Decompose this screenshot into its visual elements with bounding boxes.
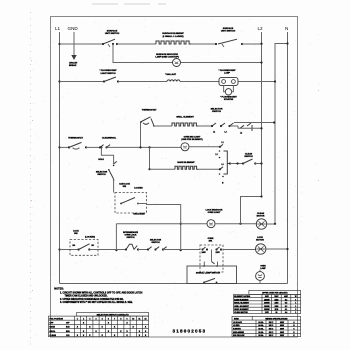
wire: [86, 146, 100, 148]
node: [180, 223, 182, 225]
svg-text:TIMER CAM CLOSED AND UNLOCKED.: TIMER CAM CLOSED AND UNLOCKED.: [65, 294, 108, 297]
svg-text:1125: 1125: [275, 309, 279, 311]
node: [215, 43, 217, 45]
oven switch contacts: [203, 247, 220, 250]
svg-text:3000W: 3000W: [264, 303, 270, 305]
lock cam switch label: [119, 182, 130, 188]
svg-text:(LOCKED): (LOCKED): [85, 237, 95, 239]
starter: fluorescent starter: [225, 89, 231, 95]
switch blade fluorescent: [104, 77, 116, 82]
lamp: surface indicator body: [173, 59, 181, 67]
svg-text:BAKE: BAKE: [50, 326, 56, 329]
wire: [150, 168, 176, 170]
wire N branch: [275, 44, 288, 224]
wire: [60, 146, 70, 148]
selector switch (upper contacts): [211, 108, 223, 113]
node: [203, 282, 205, 284]
svg-text:2250: 2250: [275, 303, 279, 305]
node: [216, 265, 218, 267]
svg-text:L2: L2: [240, 133, 242, 135]
node: [215, 248, 217, 250]
lamp: oven lamp body: [256, 272, 265, 281]
svg-text:2600W: 2600W: [264, 299, 270, 301]
svg-text:12: 12: [145, 318, 147, 320]
svg-text:4: 4: [96, 317, 97, 320]
node: [140, 121, 142, 123]
node: [260, 195, 262, 197]
node: [116, 43, 118, 45]
svg-text:CLEAN: CLEAN: [245, 153, 253, 156]
svg-text:1: 1: [295, 299, 296, 301]
wire: [215, 223, 256, 225]
svg-text:16 GA.: 16 GA.: [258, 331, 264, 334]
svg-text:8.2: 8.2: [285, 306, 287, 308]
svg-text:N: N: [285, 26, 288, 31]
lamp: oven indicator light: [181, 136, 203, 141]
svg-text:SURFACE: SURFACE: [223, 27, 234, 30]
node: [112, 43, 114, 45]
wire: [189, 146, 220, 148]
node: [58, 146, 60, 148]
svg-text:OFF: OFF: [66, 323, 69, 325]
svg-text:LOCKED: LOCKED: [134, 187, 143, 189]
wire: [107, 146, 182, 148]
svg-text:SELECTOR SWITCH CONTACTS: SELECTOR SWITCH CONTACTS: [97, 313, 130, 316]
locked label: [134, 187, 143, 189]
svg-text:WIRING SPECIFICATIONS: WIRING SPECIFICATIONS: [265, 317, 288, 320]
wire: [181, 62, 262, 64]
heating element: surface element body: [156, 41, 191, 44]
svg-text:SURFACE ELEMENT: SURFACE ELEMENT: [162, 32, 184, 35]
wire: [230, 163, 243, 165]
svg-text:105 C: 105 C: [269, 325, 274, 327]
svg-text:2600W: 2600W: [264, 306, 270, 308]
switch: intermediate oven lock switch: [123, 231, 139, 239]
svg-text:GRILL ELEMENT: GRILL ELEMENT: [176, 117, 194, 119]
contact ticks: [100, 145, 110, 148]
svg-text:1500W: 1500W: [264, 309, 270, 311]
svg-text:1950: 1950: [275, 299, 279, 301]
svg-text:SWITCH: SWITCH: [244, 156, 253, 158]
svg-text:UPPER OVEN P/N CIRCUITS: UPPER OVEN P/N CIRCUITS: [262, 293, 288, 295]
heating element: grill element: [176, 117, 194, 119]
switch: lock switch: [73, 230, 79, 235]
node: [108, 169, 110, 171]
node: [58, 248, 60, 250]
motor: lock motor: [256, 237, 264, 242]
lock cam blade: [121, 198, 135, 204]
svg-text:UNLOCKED: UNLOCKED: [133, 214, 145, 216]
node: [260, 162, 262, 164]
svg-text:14 GA.: 14 GA.: [258, 324, 264, 327]
svg-text:CLEAN/BROIL: CLEAN/BROIL: [102, 137, 117, 140]
node: [153, 125, 155, 127]
wire to N branch: [234, 122, 274, 124]
wire N bus: [287, 32, 289, 284]
svg-text:UNIT SWITCH: UNIT SWITCH: [105, 33, 120, 35]
wire: [198, 125, 212, 127]
wire L1 bus: [59, 32, 61, 284]
node: [229, 162, 231, 164]
node: [115, 249, 117, 251]
node: [78, 248, 80, 250]
table: oven circuits: [234, 290, 301, 313]
selector switch label: [96, 172, 108, 177]
svg-text:GND: GND: [68, 26, 79, 31]
node: [105, 146, 107, 148]
node: [58, 80, 60, 82]
lamp: surface indicator: [155, 53, 179, 59]
svg-text:GRILL ELEMENT: GRILL ELEMENT: [234, 306, 249, 308]
wire cascade: [101, 147, 113, 164]
svg-text:1: 1: [295, 303, 296, 305]
node: [216, 282, 218, 284]
node: [219, 146, 221, 148]
svg-text:SW.: SW.: [74, 233, 78, 235]
wire to L2: [230, 126, 262, 128]
svg-text:SELECTOR: SELECTOR: [211, 108, 223, 110]
wire: [266, 248, 288, 250]
wire: [154, 125, 172, 127]
svg-text:THERMOSTAT: THERMOSTAT: [142, 109, 158, 112]
svg-text:0.4: 0.4: [285, 311, 287, 314]
wire: [238, 81, 275, 83]
svg-text:1: 1: [295, 312, 296, 314]
node: [220, 125, 222, 127]
table: wiring specifications: [232, 316, 301, 336]
svg-text:BROIL: BROIL: [50, 331, 57, 333]
svg-text:N-WHITE: N-WHITE: [233, 329, 241, 331]
node: [120, 203, 122, 205]
svg-text:SIG-YELLOW: SIG-YELLOW: [233, 335, 245, 337]
switch blade SW2: [218, 39, 237, 44]
lamp: lock indicator: [206, 210, 223, 215]
svg-text:L2: L2: [225, 131, 227, 133]
svg-text:SWITCH: SWITCH: [127, 237, 135, 239]
svg-text:POS. POSITION: POS. POSITION: [50, 318, 64, 320]
svg-text:L2: L2: [216, 154, 218, 156]
wire bottom run: [60, 283, 288, 285]
wire: [138, 203, 147, 205]
svg-text:105 C: 105 C: [269, 332, 274, 334]
lock cam switch box: [115, 193, 147, 214]
node: [58, 43, 60, 45]
wire L2 bus: [261, 32, 263, 197]
svg-text:9: 9: [127, 318, 128, 320]
selector blade down: [109, 170, 114, 179]
wire: [198, 168, 220, 170]
node: [274, 80, 276, 82]
svg-text:2: 2: [295, 309, 296, 311]
svg-text:LAMP: LAMP: [260, 267, 266, 270]
inductor: ballast body: [167, 80, 180, 82]
selector contact column: [220, 144, 230, 174]
switch: surface unit switch SW2: [221, 27, 236, 33]
wire: [180, 81, 219, 83]
svg-text:SWITCH: SWITCH: [97, 174, 106, 176]
thermostat upper body: [141, 117, 155, 126]
node: [117, 80, 119, 82]
node: [241, 43, 243, 45]
wire: [118, 81, 167, 83]
unlocked label: [133, 214, 145, 216]
svg-text:11: 11: [139, 318, 141, 320]
wire: [255, 163, 261, 165]
svg-text:SIGNAL LAMP SWITCH: SIGNAL LAMP SWITCH: [196, 271, 221, 274]
node: [201, 248, 203, 250]
lock switch blade: [79, 244, 90, 250]
ground: [71, 55, 76, 60]
signal lamp switch blade: [204, 278, 215, 282]
node: [211, 125, 213, 127]
lamp: oven indicator body: [181, 143, 189, 151]
svg-text:STARTER: STARTER: [224, 98, 234, 101]
signal lamp switch label: [196, 271, 221, 274]
node: [85, 146, 87, 148]
node: [180, 249, 182, 251]
node: [137, 203, 139, 205]
node: [220, 248, 222, 250]
svg-text:1. CIRCUIT SHOWN WITH ALL CONT: 1. CIRCUIT SHOWN WITH ALL CONTROLS OFF T…: [60, 291, 143, 294]
node: [113, 179, 115, 181]
wire riser bake: [149, 147, 151, 169]
svg-text:MOTOR: MOTOR: [257, 216, 265, 218]
wire: [242, 43, 262, 45]
fluorescent lamp FL1 body: [219, 78, 238, 86]
svg-text:LAMP: LAMP: [224, 71, 231, 74]
svg-text:SW.: SW.: [123, 186, 127, 188]
node: [242, 162, 244, 164]
switch: surface unit switch SW1: [105, 30, 120, 36]
svg-text:CLEAN: CLEAN: [50, 334, 57, 337]
svg-text:SW.: SW.: [209, 241, 213, 243]
node: [137, 248, 139, 250]
node: [139, 146, 141, 148]
svg-text:3. COMPONENTS WITH * DO NOT AP: 3. COMPONENTS WITH * DO NOT APPEAR ON AL…: [60, 301, 133, 304]
wire: [267, 223, 275, 225]
selector switch contacts: [150, 239, 162, 244]
node: [102, 43, 104, 45]
hold contact: [98, 159, 104, 161]
svg-text:GND-GREEN: GND-GREEN: [233, 332, 245, 334]
wire to selector row: [147, 205, 181, 251]
svg-text:105 C: 105 C: [269, 335, 274, 337]
svg-text:318002053: 318002053: [173, 328, 206, 333]
contact ticks: [212, 123, 252, 131]
svg-text:8: 8: [120, 318, 121, 320]
node: [100, 146, 102, 148]
switch: fluorescent light switch: [100, 70, 118, 75]
thermostat: oven thermostat (upper): [142, 109, 158, 112]
heating element: grill element body: [172, 123, 198, 126]
svg-text:UNIT SWITCH: UNIT SWITCH: [221, 31, 236, 33]
node: [68, 146, 70, 148]
motor: clean fan motor body: [256, 219, 266, 229]
wire: [113, 180, 115, 193]
svg-text:10: 10: [132, 318, 134, 320]
wire indicator branch: [113, 44, 173, 63]
svg-text:WIRE: WIRE: [234, 318, 239, 320]
svg-text:SURFACE INDICATOR: SURFACE INDICATOR: [156, 53, 178, 56]
svg-text:14 GA.: 14 GA.: [258, 321, 264, 324]
svg-text:LAMP (ONE COOKTOP): LAMP (ONE COOKTOP): [155, 55, 179, 58]
svg-text:CLEAN: CLEAN: [257, 212, 265, 215]
svg-text:HOLD: HOLD: [98, 159, 104, 161]
svg-text:BREAK: BREAK: [69, 64, 77, 67]
svg-text:CLEAN MOTOR: CLEAN MOTOR: [234, 311, 248, 314]
node: [274, 223, 276, 225]
svg-text:6.1: 6.1: [285, 309, 287, 311]
svg-text:3: 3: [89, 318, 90, 320]
intermediate lock switch body: [126, 244, 137, 249]
svg-text:6: 6: [108, 318, 109, 320]
table: selector switch contacts: [49, 312, 149, 336]
svg-text:L1-BLACK: L1-BLACK: [233, 321, 243, 324]
node: [148, 168, 150, 170]
svg-text:9.5: 9.5: [285, 303, 287, 305]
svg-text:18 GA.: 18 GA.: [258, 334, 264, 337]
node: [286, 248, 288, 250]
lamp: lock indicator body: [207, 220, 215, 228]
oven switch dashed box: [200, 245, 223, 272]
wire ground lead: [73, 32, 75, 55]
svg-text:BAKE ELEMENT: BAKE ELEMENT: [177, 161, 195, 164]
svg-text:L1: L1: [55, 26, 61, 31]
selector row ticks: [148, 247, 167, 250]
svg-text:OVEN LIGHT: OVEN LIGHT: [208, 212, 221, 214]
svg-text:THERMOSTAT: THERMOSTAT: [68, 137, 84, 140]
node: [203, 265, 205, 267]
svg-text:90: 90: [275, 312, 277, 314]
contact: [212, 262, 215, 264]
node: [236, 162, 238, 164]
svg-text:1950: 1950: [275, 306, 279, 308]
inductor: ballast: [165, 73, 177, 76]
svg-text:(ONE PER ELEMENT): (ONE PER ELEMENT): [181, 139, 203, 141]
node: [260, 61, 262, 63]
wire: [117, 43, 156, 45]
svg-text:L1: L1: [222, 164, 224, 166]
node: [88, 248, 90, 250]
svg-text:BROIL ELEMENT: BROIL ELEMENT: [234, 303, 250, 305]
node: [239, 223, 241, 225]
svg-text:SURF. ELEMENT: SURF. ELEMENT: [234, 309, 249, 311]
svg-text:105 C: 105 C: [269, 322, 274, 324]
motor: lock motor body: [256, 244, 266, 254]
switch: oven switch: [208, 238, 214, 243]
node: [103, 80, 105, 82]
svg-text:NOTES:: NOTES:: [54, 288, 64, 291]
svg-text:2: 2: [83, 318, 84, 320]
fluorescent lamp FL1: [219, 70, 237, 75]
node: [260, 43, 262, 45]
svg-text:(1 SMALL 1 LARGE): (1 SMALL 1 LARGE): [163, 35, 184, 38]
wire inside: [211, 250, 213, 262]
thermostat lower blade: [69, 142, 82, 147]
node: [228, 125, 230, 127]
switch: clean switch: [244, 153, 253, 159]
svg-text:ELEMENT RATING: ELEMENT RATING: [234, 295, 250, 298]
svg-text:5: 5: [102, 318, 103, 320]
svg-text:1: 1: [77, 318, 78, 320]
node: [162, 248, 164, 250]
node: [154, 248, 156, 250]
wire: [191, 43, 216, 45]
svg-text:L2-RED: L2-RED: [233, 325, 240, 327]
lock switch dashed box: [70, 239, 98, 255]
wire: [223, 249, 256, 251]
svg-text:LIGHT SWITCH: LIGHT SWITCH: [100, 73, 116, 75]
wire: [60, 81, 105, 83]
node: [125, 248, 127, 250]
svg-text:L2: L2: [258, 26, 264, 31]
heating element: bake element: [177, 161, 195, 164]
svg-text:16 GA.: 16 GA.: [258, 328, 264, 331]
contacts clean/broil: [102, 137, 117, 140]
svg-text:SURFACE: SURFACE: [107, 30, 118, 33]
switch: signal lamp switch box: [187, 266, 237, 284]
svg-text:L1: L1: [222, 142, 224, 144]
clean switch blade: [243, 159, 253, 164]
wire: [138, 249, 148, 251]
heating element: bake element body: [175, 166, 198, 169]
node: [219, 168, 221, 170]
wire from L2: [241, 197, 262, 224]
svg-text:L1: L1: [213, 131, 215, 133]
motor: clean fan motor: [257, 212, 265, 218]
wire: [60, 249, 79, 251]
svg-text:SWITCH: SWITCH: [151, 242, 160, 244]
svg-text:2. UPPER INDICATOR SCREWHEAD C: 2. UPPER INDICATOR SCREWHEAD CONNECTED P…: [60, 298, 124, 301]
svg-text:105 C: 105 C: [269, 329, 274, 331]
svg-text:SWITCH: SWITCH: [212, 111, 221, 113]
wire: [60, 43, 104, 45]
wire: [116, 223, 206, 225]
contact: [114, 161, 117, 164]
node: [286, 42, 288, 44]
svg-text:8.2: 8.2: [285, 299, 287, 301]
node: [260, 127, 262, 129]
svg-text:MOTOR: MOTOR: [256, 240, 264, 242]
svg-text:BAKE ELEMENT: BAKE ELEMENT: [234, 298, 249, 301]
wire riser: [140, 122, 142, 147]
switch blade SW1: [103, 39, 115, 44]
node: [273, 121, 275, 123]
heating element: surface element: [162, 32, 184, 38]
locked note: [85, 237, 95, 239]
svg-text:7: 7: [114, 318, 115, 320]
node: [147, 248, 149, 250]
thermostat: oven thermostat (lower): [68, 137, 84, 140]
node: [206, 248, 208, 250]
svg-text:* BALLAST: * BALLAST: [165, 73, 177, 76]
node: [148, 146, 150, 148]
wire stubs: [204, 262, 217, 267]
node: [99, 146, 101, 148]
node: [254, 162, 256, 164]
wire: [89, 249, 126, 251]
wire: [163, 249, 200, 251]
svg-text:1: 1: [295, 306, 296, 308]
wire drop: [115, 224, 117, 250]
lamp: oven lamp: [260, 265, 266, 269]
